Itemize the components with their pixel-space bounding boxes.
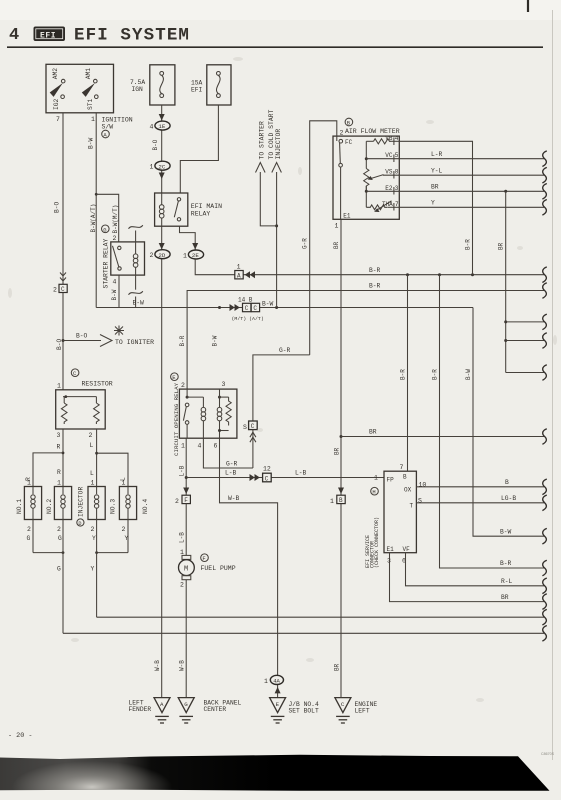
svg-text:LG-B: LG-B	[501, 495, 516, 502]
connector oval 2D	[150, 250, 171, 260]
wire L-R from VC	[399, 158, 544, 160]
pin ticks at AFM right edge	[393, 138, 395, 211]
svg-text:E1: E1	[343, 213, 351, 220]
connector arc B-R	[542, 560, 546, 576]
svg-text:B-W: B-W	[500, 528, 512, 535]
svg-text:A: A	[160, 701, 164, 708]
svg-text:M: M	[184, 566, 188, 574]
svg-text:ST1: ST1	[87, 98, 94, 110]
ignition switch contact AM2-IG2	[50, 68, 65, 110]
svg-text:FC: FC	[345, 139, 353, 146]
svg-text:B: B	[339, 497, 343, 504]
wire fuse IGN down	[161, 105, 163, 193]
wire B-R bus1 branch to check connector pin7	[399, 275, 407, 472]
wire B from OX	[416, 486, 544, 488]
svg-text:Y: Y	[91, 566, 95, 573]
starter relay coil wire lower with break	[129, 267, 143, 308]
svg-text:C: C	[253, 305, 257, 312]
to starter branch	[256, 121, 277, 226]
connector 1 B on BR wire	[330, 488, 345, 506]
connector arc R-L	[542, 578, 546, 594]
title rule	[7, 46, 543, 48]
AFM vc row	[365, 141, 400, 168]
svg-text:B-W(A/T): B-W(A/T)	[90, 204, 97, 233]
svg-text:L-B: L-B	[225, 470, 237, 477]
svg-text:BR: BR	[501, 594, 509, 601]
svg-text:A: A	[237, 272, 241, 279]
connector arc LG-B	[542, 495, 546, 511]
svg-text:2: 2	[175, 498, 179, 505]
wire B-O ignition pin7 down to resistor	[62, 113, 64, 390]
to cold start injector arrow	[268, 109, 282, 172]
svg-text:S/W: S/W	[102, 124, 114, 131]
EFI service connector H	[365, 464, 427, 568]
junction igniter branch	[62, 339, 65, 342]
svg-text:E: E	[276, 701, 280, 708]
svg-text:1: 1	[335, 223, 339, 230]
paper shading	[0, 0, 561, 20]
svg-text:4: 4	[395, 135, 399, 142]
svg-text:B-R: B-R	[399, 369, 406, 380]
svg-text:B-W: B-W	[87, 137, 94, 149]
junction starter relay branch	[95, 193, 98, 196]
svg-text:IG2: IG2	[53, 98, 60, 110]
resistor unit C	[56, 369, 113, 439]
svg-text:7: 7	[56, 116, 60, 123]
ignition switch contact AM1-ST1	[82, 68, 98, 110]
svg-text:B-R: B-R	[179, 335, 186, 346]
svg-text:B-O: B-O	[152, 139, 159, 150]
injector no1	[16, 480, 42, 543]
wire B-W starter line	[96, 307, 473, 309]
svg-text:L: L	[90, 470, 94, 477]
wire Y bus bottom	[97, 616, 544, 618]
svg-text:NO.2: NO.2	[46, 499, 53, 514]
svg-text:E2: E2	[385, 185, 393, 192]
svg-text:2: 2	[57, 526, 61, 533]
svg-text:B-R: B-R	[431, 369, 438, 380]
EFI badge	[34, 27, 66, 42]
svg-text:B-O: B-O	[76, 333, 88, 340]
svg-text:1: 1	[330, 498, 334, 505]
svg-text:Y-L: Y-L	[431, 167, 443, 174]
svg-text:6: 6	[214, 443, 218, 450]
svg-text:SET BOLT: SET BOLT	[289, 708, 319, 715]
svg-text:4: 4	[198, 443, 202, 450]
svg-text:2: 2	[150, 252, 154, 259]
wire BR from E1	[390, 553, 545, 602]
svg-text:BR: BR	[334, 663, 341, 671]
svg-text:R: R	[57, 469, 61, 476]
starter relay pin4 wire down	[118, 275, 120, 307]
svg-text:1: 1	[237, 264, 241, 271]
wire G bus bottom	[63, 632, 544, 634]
svg-text:AM1: AM1	[85, 68, 92, 80]
connector 2 F on fuel pump wire	[175, 488, 190, 506]
svg-text:2: 2	[180, 582, 184, 589]
svg-text:G-R: G-R	[279, 347, 291, 354]
ground E JB no4 set bolt	[270, 698, 319, 723]
svg-text:1E: 1E	[158, 123, 165, 130]
connector oval 1E	[150, 121, 171, 131]
svg-text:NO.3: NO.3	[110, 499, 117, 514]
svg-text:C: C	[245, 305, 249, 312]
starter relay G	[102, 225, 145, 289]
svg-text:2E: 2E	[192, 252, 199, 259]
svg-text:B-R: B-R	[369, 283, 381, 290]
wire fuse EFI to relay switch	[180, 105, 218, 193]
injector no4	[119, 480, 149, 543]
svg-text:AM2: AM2	[52, 68, 59, 80]
svg-text:3: 3	[222, 381, 226, 388]
connector arc BR stub3	[542, 365, 546, 381]
svg-text:B-O: B-O	[54, 201, 61, 213]
svg-text:4A: 4A	[273, 677, 280, 684]
svg-text:FP: FP	[387, 477, 395, 484]
wire branch to starter relay pin 2	[96, 194, 119, 242]
svg-text:B-W: B-W	[465, 369, 472, 380]
wire B-R bus1 branch down right	[431, 275, 544, 568]
svg-text:C: C	[61, 286, 65, 293]
connector arc BR stub1	[542, 314, 546, 330]
svg-text:G: G	[57, 566, 61, 573]
wire B-O to igniter	[63, 340, 101, 342]
svg-text:7: 7	[395, 201, 399, 208]
svg-text:C8670S: C8670S	[541, 752, 555, 756]
svg-text:B-R: B-R	[500, 560, 512, 567]
svg-text:2: 2	[27, 526, 31, 533]
injector no2	[46, 480, 72, 543]
svg-text:3: 3	[395, 185, 399, 192]
connector arc B-W	[542, 528, 546, 544]
asterisk mark	[114, 326, 124, 336]
svg-text:B-W: B-W	[212, 335, 219, 346]
connector arc Y tha	[542, 200, 546, 216]
connector oval 2E	[183, 250, 204, 260]
wire relay switch down to 2E	[180, 226, 196, 250]
svg-text:G: G	[27, 535, 31, 542]
faint scan smudges	[8, 57, 557, 702]
svg-text:CENTER: CENTER	[204, 706, 227, 713]
svg-text:B-O: B-O	[56, 338, 63, 350]
svg-text:4: 4	[113, 279, 117, 286]
svg-text:B-W: B-W	[262, 300, 274, 307]
AFM fc contact	[339, 139, 353, 167]
svg-text:VC: VC	[385, 152, 393, 159]
svg-text:IGNITION: IGNITION	[102, 117, 133, 124]
connector arc L-R	[542, 151, 546, 167]
fuel pump F	[179, 503, 236, 697]
AFM potentiometer	[364, 169, 400, 192]
svg-text:NO.4: NO.4	[142, 499, 149, 514]
connector 14 B C/C on B-W line	[230, 297, 274, 322]
svg-text:1: 1	[122, 480, 126, 487]
wire to starter / cold start riser	[276, 172, 278, 308]
svg-text:INJECTOR: INJECTOR	[275, 129, 282, 160]
AFM vb resistor row	[366, 135, 399, 144]
svg-text:VF: VF	[403, 546, 411, 553]
connector oval 2C	[150, 161, 171, 171]
svg-text:2: 2	[181, 382, 185, 389]
svg-text:LEFT: LEFT	[355, 708, 370, 715]
svg-text:INJECTOR: INJECTOR	[78, 487, 85, 517]
top right tick mark	[527, 0, 529, 12]
svg-text:2: 2	[340, 130, 344, 137]
svg-text:C: C	[251, 423, 255, 430]
connector arc BR bus	[542, 429, 546, 445]
svg-text:TO IGNITER: TO IGNITER	[115, 339, 154, 346]
connector arc B	[542, 479, 546, 495]
svg-text:1: 1	[264, 678, 268, 685]
wire 2E to B-R bus1	[195, 259, 544, 275]
svg-text:OX: OX	[404, 487, 412, 494]
svg-text:F: F	[184, 497, 188, 504]
arrow down	[159, 114, 165, 121]
wire G-R from AFM to S connector	[243, 347, 310, 468]
svg-text:L: L	[90, 442, 94, 449]
wire BR net from E2 junction	[498, 190, 545, 373]
arrow down	[192, 243, 198, 250]
svg-text:W-B: W-B	[178, 660, 185, 671]
svg-text:FENDER: FENDER	[129, 706, 152, 713]
svg-text:2: 2	[89, 432, 93, 439]
svg-text:2: 2	[91, 526, 95, 533]
connector arc BR stub2	[542, 333, 546, 349]
connector arc Y-L	[542, 167, 546, 183]
svg-text:12: 12	[263, 466, 271, 473]
wire B-W corner down right	[465, 308, 544, 537]
svg-text:Y: Y	[92, 535, 96, 542]
svg-text:BR: BR	[333, 241, 340, 249]
svg-text:1: 1	[374, 475, 378, 482]
svg-text:G-R: G-R	[226, 460, 238, 467]
wire W-B relay pin6 to JB ground	[220, 438, 278, 697]
svg-text:T: T	[410, 503, 414, 510]
svg-text:2: 2	[53, 287, 57, 294]
connector oval 4A	[264, 675, 284, 693]
svg-text:2: 2	[113, 235, 117, 242]
svg-text:1: 1	[57, 383, 61, 390]
svg-text:E1: E1	[387, 546, 395, 553]
svg-text:EFI: EFI	[191, 86, 203, 93]
wire Y-L from VS	[399, 174, 544, 176]
svg-text:(CHECK CONNECTOR): (CHECK CONNECTOR)	[374, 517, 380, 568]
svg-text:RESISTOR: RESISTOR	[82, 381, 113, 388]
svg-text:8: 8	[395, 169, 399, 176]
connector arc B-R bus2	[542, 283, 546, 299]
wire BR from AFM E1 down	[333, 219, 341, 697]
connector 12 on L-B wire	[250, 466, 272, 483]
svg-text:IGN: IGN	[132, 86, 144, 93]
svg-text:G-R: G-R	[302, 238, 309, 249]
ground C engine left	[334, 663, 378, 723]
svg-text:1: 1	[181, 443, 185, 450]
AFM e2 row	[365, 185, 400, 208]
circuit opening relay E	[171, 373, 237, 456]
svg-text:G: G	[103, 226, 106, 233]
wire Y from THA	[399, 206, 544, 208]
svg-text:5: 5	[395, 152, 399, 159]
svg-text:TO STARTER: TO STARTER	[258, 121, 265, 160]
ground A left fender	[129, 698, 171, 723]
wire relay coil down to 2D	[161, 226, 163, 697]
svg-text:W-B: W-B	[228, 495, 240, 502]
svg-text:1: 1	[150, 164, 154, 171]
connector 2 C on B-O wire	[53, 273, 67, 294]
svg-text:EFI MAIN: EFI MAIN	[191, 203, 222, 210]
svg-text:B: B	[403, 474, 407, 481]
svg-text:1: 1	[27, 480, 31, 487]
svg-text:2D: 2D	[158, 252, 165, 259]
svg-text:H: H	[372, 489, 375, 496]
svg-text:1: 1	[91, 116, 95, 123]
arrow to igniter	[100, 335, 112, 347]
AFM E1 pin1	[335, 167, 351, 230]
svg-text:B-W: B-W	[133, 299, 145, 306]
svg-text:L-B: L-B	[178, 465, 185, 476]
svg-text:10: 10	[419, 482, 427, 489]
svg-text:VS: VS	[385, 169, 393, 176]
svg-text:B-R: B-R	[464, 239, 471, 250]
svg-text:C: C	[341, 701, 345, 708]
starter relay coil wire upper with break	[129, 225, 143, 254]
wire B-W ignition pin1 down	[95, 113, 97, 308]
wire G-R AFM pin2	[302, 121, 344, 355]
connector arc G bus	[542, 626, 546, 642]
connector box A on bus1	[235, 264, 255, 280]
node branch to injector no4	[95, 452, 98, 455]
svg-text:B-W: B-W	[111, 289, 118, 300]
arrow down	[159, 243, 165, 250]
svg-text:EFI SYSTEM: EFI SYSTEM	[74, 26, 190, 46]
svg-text:STARTER RELAY: STARTER RELAY	[102, 238, 109, 288]
svg-text:G: G	[58, 535, 62, 542]
fuse 7.5A IGN	[130, 65, 175, 105]
wire BR from E2	[399, 190, 544, 192]
svg-text:EFI: EFI	[40, 32, 56, 41]
air flow meter B	[345, 118, 353, 126]
right page edge faint line	[552, 10, 554, 760]
svg-text:F: F	[202, 555, 205, 562]
wire B-R from VB down to bus1	[399, 141, 472, 274]
svg-text:THA: THA	[382, 201, 393, 208]
ground G back panel center	[178, 698, 241, 723]
svg-text:1: 1	[91, 480, 95, 487]
wire relay pin4 to S wire G-R	[203, 438, 253, 468]
svg-text:BR: BR	[431, 184, 439, 191]
connector arc BR e2	[542, 184, 546, 200]
svg-text:(M/T) (A/T): (M/T) (A/T)	[232, 316, 264, 322]
ignition switch box A	[46, 64, 114, 113]
svg-text:BR: BR	[333, 447, 340, 455]
wire L-B relay pin1 to check connector	[178, 438, 384, 503]
wire L resistor pin2 down	[96, 429, 98, 487]
svg-text:2C: 2C	[158, 163, 165, 170]
svg-text:B-W(M/T): B-W(M/T)	[112, 205, 119, 234]
wire LG-B from T	[416, 502, 544, 504]
AFM tha thermistor row	[366, 201, 399, 212]
arrow down below 2C	[159, 173, 165, 180]
fuse 15A EFI	[191, 65, 231, 105]
injector label D	[77, 487, 85, 527]
wire injectors 1+2 join G	[33, 520, 64, 634]
svg-text:L-R: L-R	[431, 151, 443, 158]
svg-text:VB: VB	[385, 135, 393, 142]
svg-text:3: 3	[57, 432, 61, 439]
svg-text:B: B	[505, 479, 509, 486]
svg-text:L-B: L-B	[295, 470, 307, 477]
junction dots on bus1	[406, 273, 409, 276]
connector arc B-R bus1	[542, 267, 546, 283]
svg-text:C: C	[265, 475, 269, 482]
svg-text:B-R: B-R	[369, 267, 381, 274]
injector no3	[88, 480, 117, 543]
svg-text:NO.1: NO.1	[16, 499, 23, 514]
svg-text:Y: Y	[431, 200, 435, 207]
svg-text:S: S	[418, 498, 422, 505]
svg-text:G: G	[184, 701, 188, 708]
svg-text:RELAY: RELAY	[191, 210, 211, 217]
connector arc Y bus	[542, 609, 546, 625]
svg-text:7: 7	[400, 464, 404, 471]
svg-text:BR: BR	[369, 429, 377, 436]
svg-text:1: 1	[183, 253, 187, 260]
svg-text:- 20 -: - 20 -	[8, 732, 32, 740]
svg-text:R-L: R-L	[501, 578, 513, 585]
EFI main relay	[155, 193, 223, 226]
wire BR bus to arc	[333, 429, 544, 455]
node branch to injector no1	[62, 452, 65, 455]
svg-text:1: 1	[57, 480, 61, 487]
svg-text:W-B: W-B	[154, 660, 161, 671]
svg-text:BR: BR	[498, 242, 505, 250]
wire R-L from VF	[406, 553, 545, 586]
svg-text:4: 4	[9, 26, 19, 45]
svg-text:FUEL PUMP: FUEL PUMP	[201, 565, 236, 572]
circled A	[102, 130, 110, 138]
wire B-R bus2	[187, 291, 544, 390]
svg-text:L-B: L-B	[179, 532, 186, 543]
connector arc BR e1	[542, 594, 546, 610]
wire injectors 3+4 join Y	[91, 520, 129, 618]
svg-text:4: 4	[150, 124, 154, 131]
svg-text:R: R	[57, 444, 61, 451]
svg-text:D: D	[78, 521, 81, 527]
svg-text:14 B: 14 B	[238, 297, 253, 304]
svg-text:2: 2	[122, 526, 126, 533]
wire R resistor pin3 down	[62, 429, 64, 487]
svg-text:S: S	[243, 424, 247, 431]
